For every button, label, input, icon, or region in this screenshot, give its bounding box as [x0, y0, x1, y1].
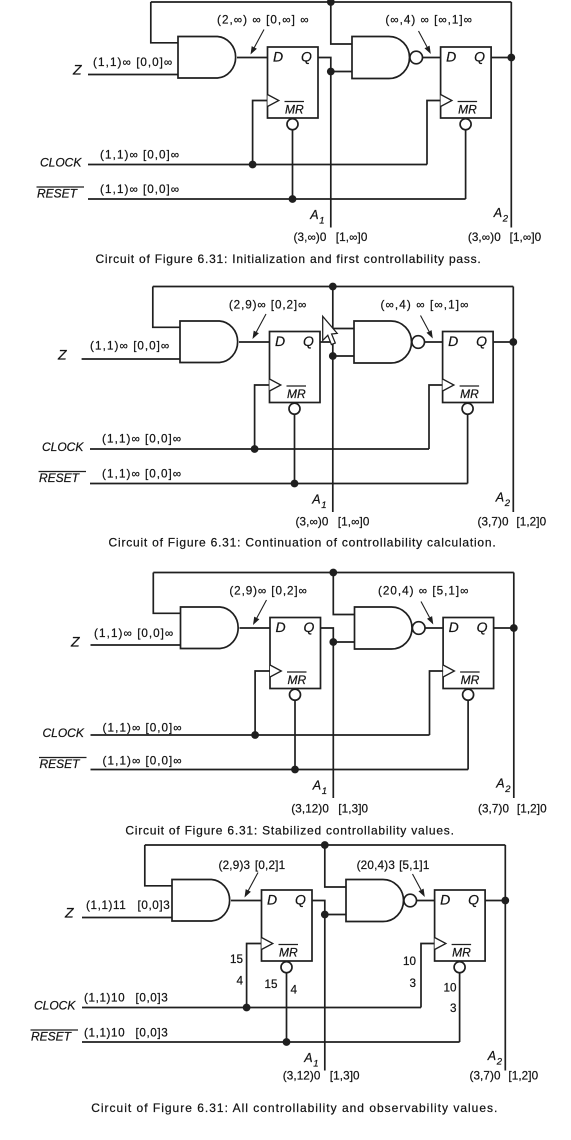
svg-text:MR: MR [287, 387, 306, 401]
svg-text:CLOCK: CLOCK [34, 999, 76, 1013]
svg-text:(20,4)3: (20,4)3 [357, 859, 395, 872]
svg-text:Q: Q [474, 49, 485, 65]
svg-text:(1,1)∞: (1,1)∞ [102, 433, 141, 446]
svg-text:1: 1 [313, 1059, 318, 1070]
svg-text:CLOCK: CLOCK [43, 726, 85, 740]
svg-text:Q: Q [301, 49, 312, 65]
svg-text:[0,0]3: [0,0]3 [138, 899, 171, 912]
svg-text:[0,0]∞: [0,0]∞ [133, 340, 170, 353]
svg-text:[1,∞]0: [1,∞]0 [336, 231, 368, 244]
svg-text:[0,0]∞: [0,0]∞ [137, 627, 174, 640]
svg-text:CLOCK: CLOCK [40, 156, 82, 170]
svg-text:[0,0]∞: [0,0]∞ [143, 149, 180, 162]
svg-text:RESET: RESET [31, 1030, 73, 1044]
svg-text:Q: Q [295, 892, 306, 908]
svg-text:(3,7)0: (3,7)0 [478, 802, 510, 815]
svg-text:(3,12)0: (3,12)0 [283, 1070, 321, 1083]
svg-text:[0,0]∞: [0,0]∞ [146, 755, 183, 768]
svg-text:[1,3]0: [1,3]0 [338, 802, 368, 815]
svg-text:MR: MR [458, 103, 477, 117]
svg-text:A: A [495, 777, 504, 791]
svg-text:Z: Z [72, 62, 82, 78]
svg-text:[1,2]0: [1,2]0 [516, 516, 546, 529]
svg-text:D: D [446, 49, 456, 65]
svg-text:(1,1)∞: (1,1)∞ [100, 149, 139, 162]
svg-text:(3,7)0: (3,7)0 [477, 516, 509, 529]
svg-text:[0,0]∞: [0,0]∞ [145, 468, 182, 481]
svg-text:RESET: RESET [39, 471, 81, 485]
svg-text:(1,1)∞: (1,1)∞ [103, 722, 142, 735]
svg-text:(3,∞)0: (3,∞)0 [294, 231, 327, 244]
svg-text:[5,1]1: [5,1]1 [399, 859, 429, 872]
svg-text:[1,∞]0: [1,∞]0 [338, 516, 370, 529]
svg-text:A: A [303, 1051, 312, 1065]
svg-text:1: 1 [321, 500, 326, 511]
svg-text:MR: MR [452, 946, 471, 960]
svg-text:A: A [495, 491, 504, 505]
svg-text:(1,1)∞: (1,1)∞ [93, 56, 132, 69]
svg-text:Circuit of Figure 6.31: All co: Circuit of Figure 6.31: All controllabil… [91, 1101, 498, 1115]
svg-text:2: 2 [502, 214, 509, 225]
svg-text:(1,1)11: (1,1)11 [86, 899, 126, 912]
svg-text:MR: MR [288, 673, 307, 687]
svg-text:(∞,4) ∞ [∞,1]∞: (∞,4) ∞ [∞,1]∞ [381, 299, 470, 312]
svg-text:MR: MR [285, 103, 304, 117]
svg-text:(1,1)10: (1,1)10 [84, 992, 125, 1005]
svg-text:A: A [487, 1049, 496, 1063]
svg-text:[1,2]0: [1,2]0 [508, 1070, 538, 1083]
svg-text:(∞,4) ∞ [∞,1]∞: (∞,4) ∞ [∞,1]∞ [385, 14, 473, 27]
svg-text:Z: Z [64, 905, 74, 921]
svg-text:Q: Q [468, 892, 479, 908]
svg-text:D: D [449, 619, 459, 635]
svg-text:Q: Q [303, 333, 314, 349]
svg-text:A: A [312, 779, 321, 793]
svg-text:[0,0]∞: [0,0]∞ [143, 183, 180, 196]
svg-text:(1,1)10: (1,1)10 [84, 1027, 125, 1040]
svg-text:10: 10 [403, 955, 417, 968]
svg-text:[0,2]1: [0,2]1 [255, 859, 285, 872]
svg-text:(1,1)∞: (1,1)∞ [102, 468, 141, 481]
svg-text:Q: Q [476, 333, 487, 349]
svg-text:CLOCK: CLOCK [42, 440, 84, 454]
svg-text:3: 3 [450, 1002, 457, 1015]
svg-text:1: 1 [319, 216, 324, 227]
svg-text:Z: Z [70, 634, 80, 650]
svg-text:A: A [493, 206, 502, 220]
svg-text:A: A [309, 208, 318, 222]
svg-text:(3,∞)0: (3,∞)0 [296, 516, 329, 529]
svg-text:RESET: RESET [40, 757, 82, 771]
svg-text:[1,2]0: [1,2]0 [517, 802, 547, 815]
svg-text:4: 4 [236, 975, 243, 988]
svg-text:[1,3]0: [1,3]0 [330, 1070, 360, 1083]
svg-text:Q: Q [304, 619, 315, 635]
svg-text:D: D [275, 333, 285, 349]
svg-text:4: 4 [291, 984, 298, 997]
svg-text:D: D [448, 333, 458, 349]
svg-text:[0,0]∞: [0,0]∞ [145, 433, 182, 446]
svg-text:[0,0]3: [0,0]3 [136, 1027, 169, 1040]
svg-text:2: 2 [504, 784, 511, 795]
svg-text:(2,9)3: (2,9)3 [219, 859, 251, 872]
svg-text:Z: Z [57, 347, 67, 363]
svg-text:Circuit of Figure 6.31: Initia: Circuit of Figure 6.31: Initialization a… [95, 252, 481, 266]
svg-text:Circuit of Figure 6.31: Stabil: Circuit of Figure 6.31: Stabilized contr… [125, 824, 454, 838]
svg-text:D: D [267, 892, 277, 908]
svg-text:(3,∞)0: (3,∞)0 [468, 231, 501, 244]
svg-text:(20,4) ∞ [5,1]∞: (20,4) ∞ [5,1]∞ [378, 585, 469, 598]
svg-text:D: D [440, 892, 450, 908]
svg-text:15: 15 [264, 978, 278, 991]
svg-text:[0,0]3: [0,0]3 [136, 992, 169, 1005]
svg-text:(1,1)∞: (1,1)∞ [94, 627, 133, 640]
svg-text:(1,1)∞: (1,1)∞ [100, 183, 139, 196]
svg-text:Circuit of Figure 6.31: Contin: Circuit of Figure 6.31: Continuation of … [109, 536, 497, 550]
svg-text:(2,∞) ∞ [0,∞] ∞: (2,∞) ∞ [0,∞] ∞ [217, 14, 310, 27]
svg-text:1: 1 [322, 786, 327, 797]
svg-text:RESET: RESET [37, 187, 79, 201]
svg-text:(2,9)∞ [0,2]∞: (2,9)∞ [0,2]∞ [229, 585, 307, 598]
svg-text:2: 2 [504, 498, 511, 509]
svg-text:10: 10 [443, 982, 457, 995]
svg-text:MR: MR [461, 673, 480, 687]
svg-text:(2,9)∞ [0,2]∞: (2,9)∞ [0,2]∞ [229, 299, 307, 312]
svg-text:(1,1)∞: (1,1)∞ [103, 755, 142, 768]
svg-text:15: 15 [230, 953, 244, 966]
svg-text:[0,0]∞: [0,0]∞ [146, 722, 183, 735]
svg-text:[1,∞]0: [1,∞]0 [510, 231, 542, 244]
svg-text:MR: MR [460, 387, 479, 401]
svg-text:A: A [311, 493, 320, 507]
svg-text:Q: Q [477, 619, 488, 635]
svg-text:3: 3 [409, 977, 416, 990]
svg-text:(3,12)0: (3,12)0 [291, 802, 329, 815]
svg-text:D: D [273, 49, 283, 65]
svg-text:(3,7)0: (3,7)0 [469, 1070, 501, 1083]
svg-text:D: D [276, 619, 286, 635]
svg-text:MR: MR [279, 946, 298, 960]
svg-text:2: 2 [496, 1057, 503, 1068]
svg-text:(1,1)∞: (1,1)∞ [90, 340, 129, 353]
svg-text:[0,0]∞: [0,0]∞ [136, 56, 173, 69]
